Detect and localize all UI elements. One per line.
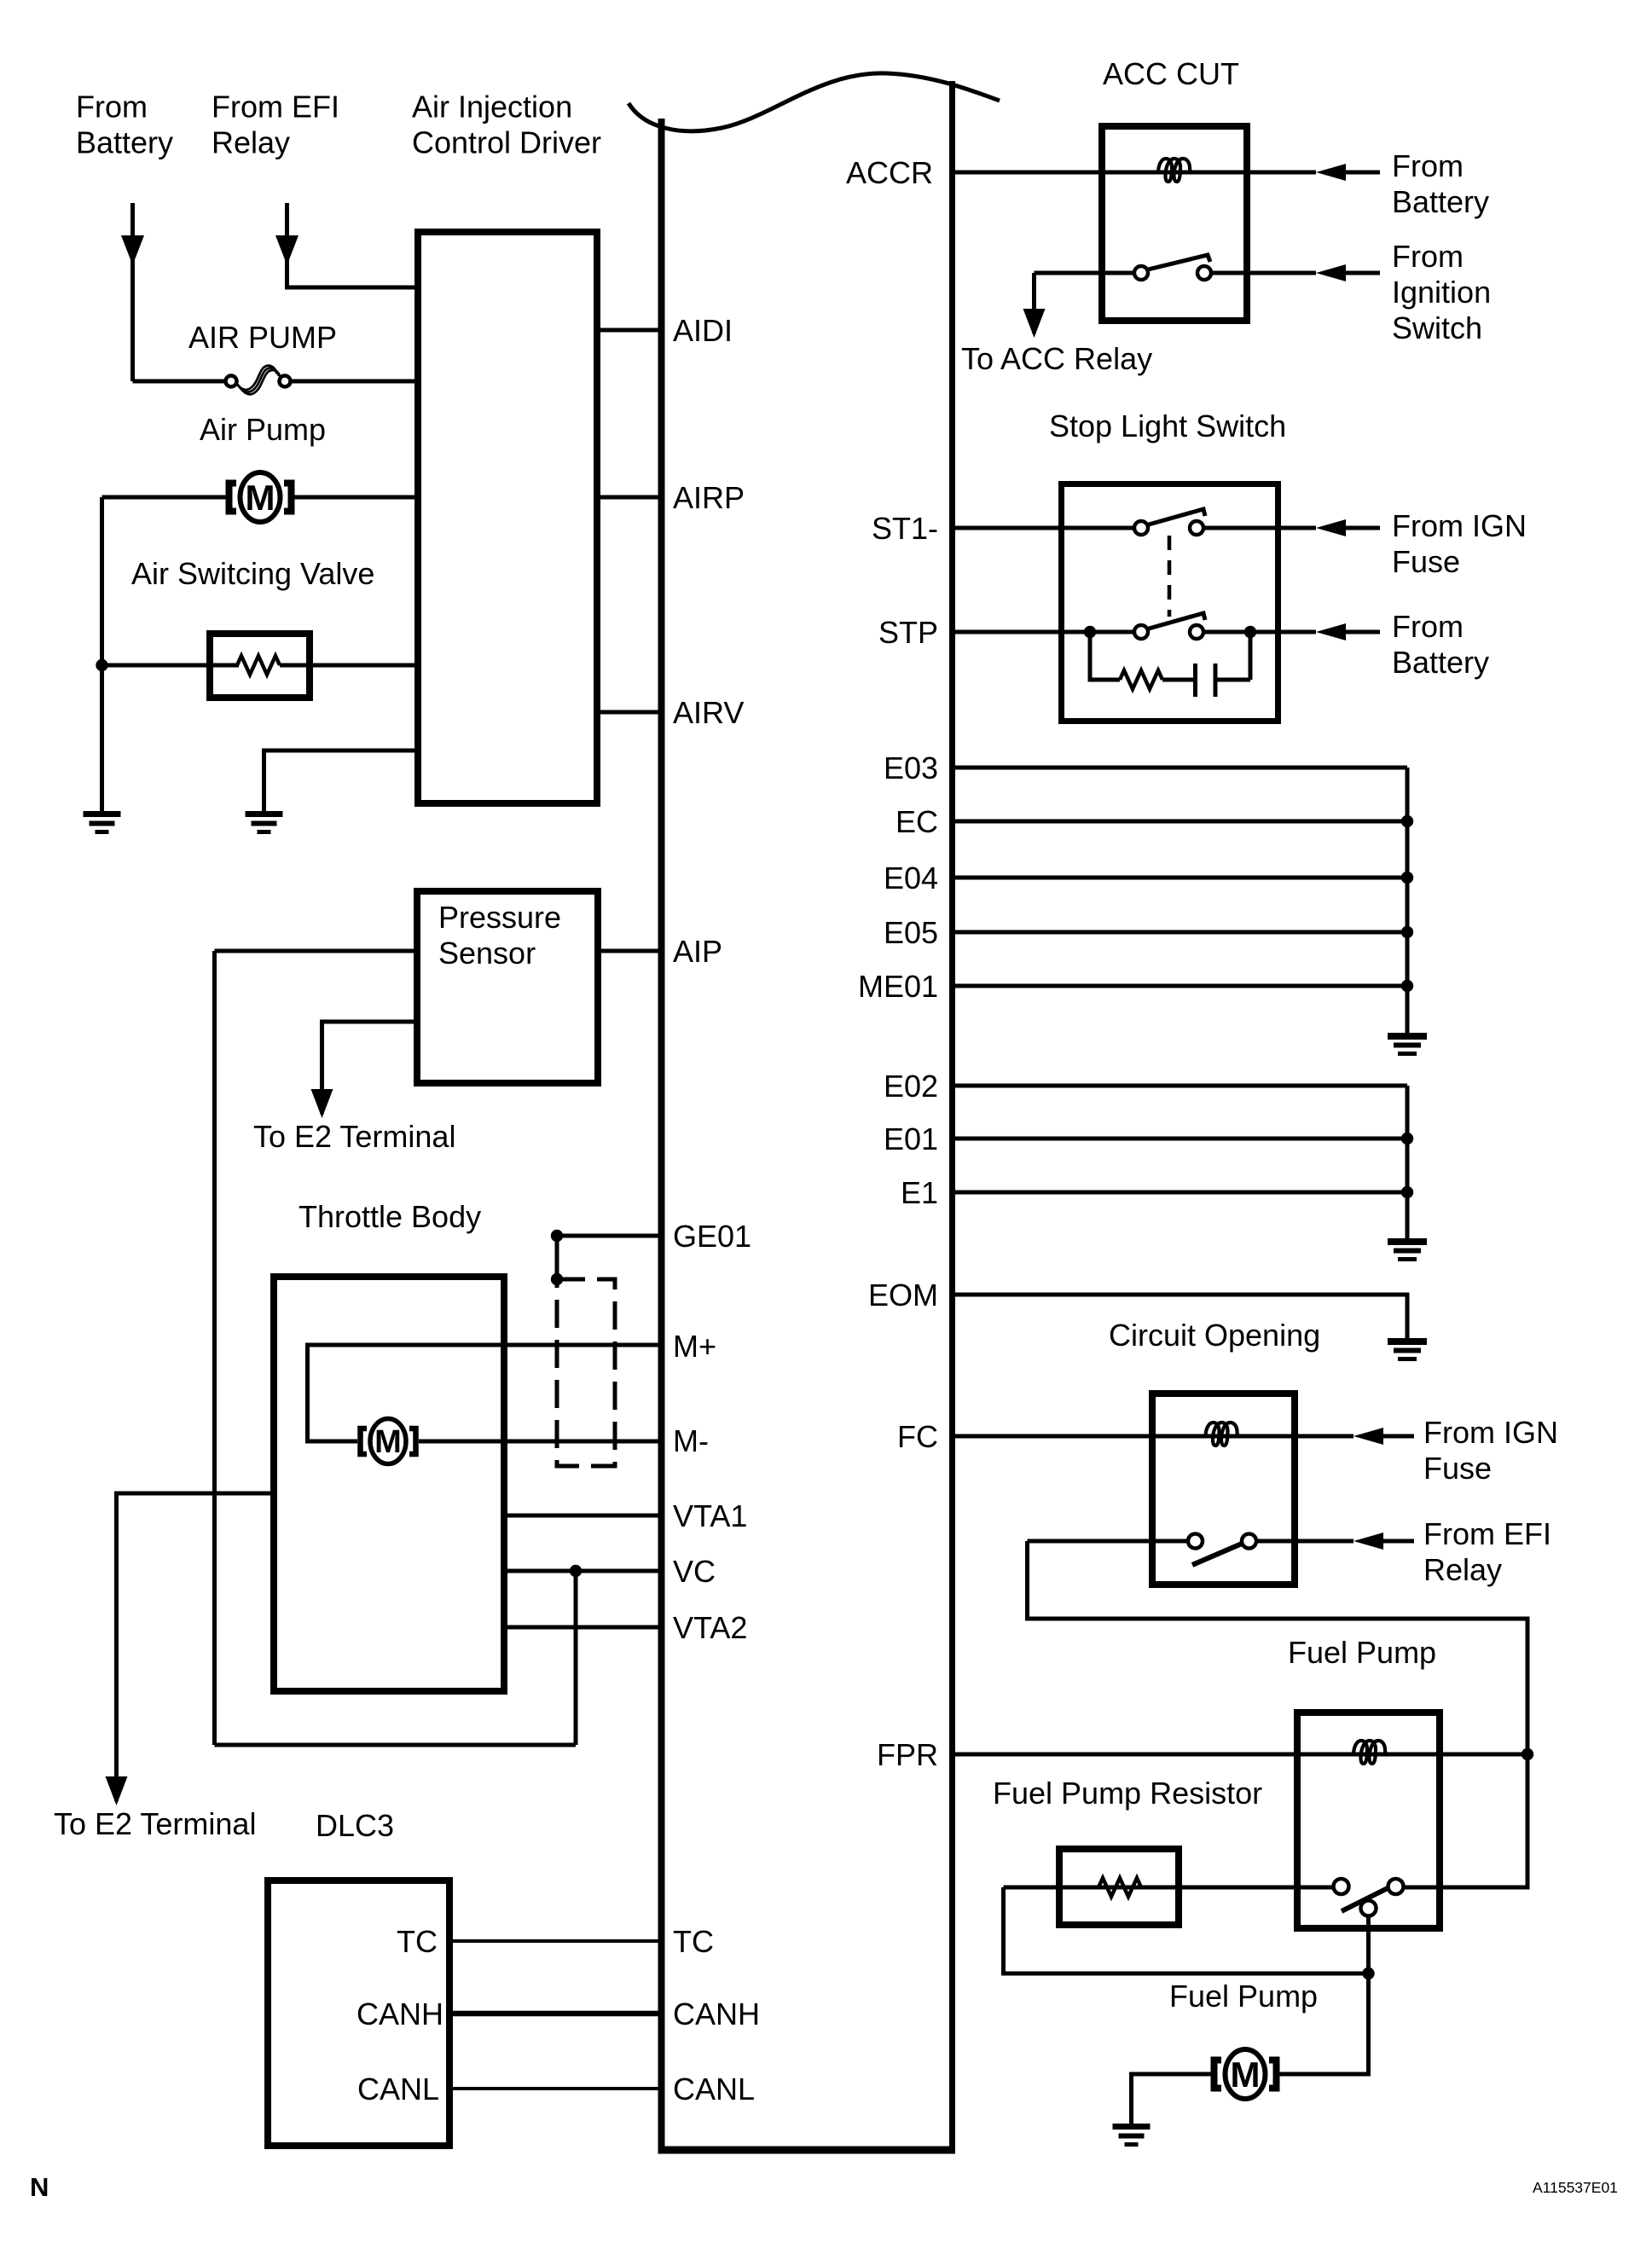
- svg-text:From: From: [76, 90, 148, 125]
- air switching valve box: [210, 634, 310, 698]
- svg-text:GE01: GE01: [673, 1219, 751, 1254]
- svg-text:To ACC Relay: To ACC Relay: [961, 341, 1152, 376]
- ground rail vertical (air system): [100, 497, 104, 811]
- svg-text:VTA1: VTA1: [673, 1498, 747, 1533]
- svg-text:Battery: Battery: [76, 125, 173, 160]
- svg-text:Fuse: Fuse: [1392, 544, 1460, 579]
- junction dot fuel pump feed: [1362, 1967, 1374, 1979]
- throttle body box: [274, 1277, 504, 1691]
- svg-text:E05: E05: [884, 915, 938, 950]
- wire circuit opening to fuel pump relay: [1028, 1541, 1528, 1754]
- wire M-: [419, 1440, 664, 1444]
- svg-text:AIRP: AIRP: [673, 480, 745, 515]
- ground symbol air system: [84, 811, 121, 834]
- svg-text:VTA2: VTA2: [673, 1610, 747, 1645]
- svg-text:AIDI: AIDI: [673, 313, 733, 348]
- svg-text:Battery: Battery: [1392, 184, 1489, 219]
- resistor bypass left leg: [1004, 1887, 1369, 1973]
- arrowhead from IGN fuse (FC): [1353, 1428, 1383, 1445]
- wire EOM: [955, 1295, 1407, 1338]
- svg-text:TC: TC: [673, 1924, 714, 1959]
- ECM left boundary line: [658, 119, 665, 2152]
- wire driver box ground: [264, 750, 415, 811]
- svg-text:EC: EC: [896, 804, 938, 839]
- air pump motor M: [229, 472, 292, 522]
- wire EFI relay feed right segment: [1257, 1539, 1353, 1544]
- svg-text:Battery: Battery: [1392, 645, 1489, 680]
- svg-text:From: From: [1392, 239, 1464, 274]
- wire ACCR to ACC CUT relay: [955, 171, 1316, 175]
- wire ignition feed right segment: [1211, 271, 1316, 275]
- SECTION-LEFT: [955, 126, 1533, 2147]
- wire STP left segment: [955, 630, 1134, 635]
- circuit opening relay coil: [1206, 1423, 1240, 1446]
- wire E04: [955, 876, 1407, 880]
- svg-text:ACC CUT: ACC CUT: [1103, 56, 1239, 91]
- svg-text:N: N: [30, 2172, 49, 2202]
- svg-text:From EFI: From EFI: [1423, 1516, 1551, 1551]
- VC loop vertical right: [574, 1571, 578, 1745]
- svg-text:E1: E1: [901, 1175, 938, 1210]
- svg-text:M: M: [246, 478, 275, 518]
- junction dot STP left: [1084, 626, 1096, 638]
- wire pressure sensor to VC loop: [215, 949, 414, 953]
- dashed link between switch blades: [1168, 536, 1172, 617]
- arrowhead to E2 terminal upper: [311, 1089, 333, 1118]
- svg-text:M: M: [374, 1424, 402, 1460]
- STP switch blade: [1149, 613, 1205, 629]
- svg-text:Relay: Relay: [1423, 1552, 1502, 1587]
- fuse AIR PUMP: [226, 366, 291, 395]
- fuel pump relay box: [1297, 1712, 1440, 1928]
- circuit opening relay box: [1152, 1394, 1295, 1585]
- svg-text:Pressure: Pressure: [438, 900, 561, 935]
- snubber resistor: [1120, 670, 1162, 689]
- ground symbol fuel pump: [1113, 2124, 1151, 2147]
- wire air pump motor left: [102, 495, 227, 500]
- wire ST1- right segment: [1203, 526, 1316, 530]
- svg-text:Air Pump: Air Pump: [200, 412, 326, 447]
- wire tail from IGN fuse: [1346, 526, 1380, 530]
- arrowhead EFI relay feed: [275, 235, 299, 265]
- ground symbol E02 group: [1388, 1238, 1427, 1261]
- svg-text:Ignition: Ignition: [1392, 275, 1491, 310]
- circuit opening contact left: [1188, 1534, 1203, 1549]
- svg-text:AIP: AIP: [673, 934, 722, 969]
- ACC CUT switch blade: [1148, 255, 1210, 269]
- svg-text:From IGN: From IGN: [1392, 508, 1527, 543]
- fuel pump resistor box: [1059, 1849, 1179, 1925]
- wire FPR: [955, 1753, 1527, 1757]
- svg-text:EOM: EOM: [868, 1278, 938, 1313]
- svg-text:E03: E03: [884, 750, 938, 785]
- wire ignition feed left segment: [1035, 271, 1135, 275]
- wire fuel pump motor to ground: [1132, 2074, 1212, 2124]
- wire air switching valve to driver box: [280, 664, 414, 668]
- arrowhead from battery (STP): [1316, 623, 1346, 640]
- svg-text:Control Driver: Control Driver: [412, 125, 601, 160]
- junction dot FPR: [1522, 1748, 1533, 1760]
- svg-text:Circuit Opening: Circuit Opening: [1109, 1318, 1320, 1353]
- arrowhead to E2 terminal lower: [106, 1776, 128, 1805]
- STP switch contact right: [1190, 625, 1203, 639]
- wire EFI relay feed left segment: [1028, 1539, 1189, 1544]
- svg-text:Switch: Switch: [1392, 310, 1482, 345]
- wire STP right segment: [1203, 630, 1316, 635]
- wire EC: [955, 820, 1407, 824]
- snubber right leg: [1249, 632, 1253, 680]
- svg-text:ME01: ME01: [858, 969, 938, 1004]
- pin stub AIRP: [600, 495, 664, 500]
- wire M+: [308, 1345, 665, 1441]
- junction dot STP right: [1244, 626, 1256, 638]
- wire relay common to fuel pump motor: [1279, 1915, 1369, 2074]
- junction dot E1: [1401, 1186, 1413, 1198]
- svg-text:DLC3: DLC3: [316, 1808, 394, 1843]
- svg-text:From IGN: From IGN: [1423, 1415, 1558, 1450]
- wire tail from IGN fuse (FC): [1383, 1434, 1414, 1439]
- fuel relay contact left: [1334, 1879, 1349, 1894]
- ACC CUT switch contact right: [1197, 266, 1211, 280]
- svg-text:FPR: FPR: [877, 1737, 938, 1772]
- svg-text:ST1-: ST1-: [872, 511, 938, 546]
- wire air pump motor to driver box: [294, 495, 414, 500]
- svg-text:To E2 Terminal: To E2 Terminal: [253, 1119, 455, 1154]
- wire E03: [955, 766, 1407, 770]
- ACC CUT relay box: [1102, 126, 1247, 321]
- svg-text:CANH: CANH: [356, 1996, 443, 2031]
- snubber capacitor: [1196, 664, 1216, 697]
- wire TC: [453, 1939, 664, 1943]
- svg-text:Fuel Pump: Fuel Pump: [1169, 1979, 1318, 2014]
- fuel pump motor M: [1214, 2049, 1277, 2099]
- wire to ACC relay: [1032, 273, 1036, 333]
- arrowhead to ACC relay: [1023, 309, 1046, 338]
- ST1- switch contact right: [1190, 521, 1203, 535]
- svg-text:ACCR: ACCR: [846, 155, 933, 190]
- wire VC: [507, 1569, 664, 1573]
- svg-text:Fuel Pump Resistor: Fuel Pump Resistor: [993, 1776, 1262, 1811]
- ST1- switch contact left: [1134, 521, 1148, 535]
- ECM right boundary line: [949, 81, 955, 2152]
- svg-text:STP: STP: [878, 615, 938, 650]
- svg-text:AIR PUMP: AIR PUMP: [188, 320, 337, 355]
- svg-text:M+: M+: [673, 1329, 716, 1364]
- resistor fuel pump: [1098, 1878, 1141, 1897]
- arrowhead from IGN fuse: [1316, 519, 1346, 536]
- wire pressure sensor to E2 arrow: [322, 1022, 414, 1114]
- junction dot E04: [1401, 872, 1413, 884]
- wire ME01: [955, 984, 1407, 988]
- arrowhead from EFI relay: [1353, 1533, 1383, 1550]
- svg-text:Sensor: Sensor: [438, 936, 536, 971]
- circuit opening switch blade: [1192, 1544, 1242, 1565]
- ground bus vertical (E02 group): [1406, 1086, 1410, 1238]
- junction dot connector top: [551, 1273, 563, 1285]
- svg-text:CANL: CANL: [357, 2072, 439, 2106]
- pressure sensor box: [417, 891, 598, 1083]
- svg-text:M-: M-: [673, 1423, 709, 1458]
- wire CANH: [453, 2011, 664, 2017]
- junction dot ME01: [1401, 980, 1413, 992]
- circuit opening contact right: [1242, 1534, 1256, 1549]
- ECM torn-edge curve: [629, 73, 1000, 131]
- wire FPR feed down to switch: [1404, 1754, 1527, 1887]
- svg-text:Fuse: Fuse: [1423, 1451, 1492, 1486]
- svg-text:E02: E02: [884, 1069, 938, 1104]
- wire CANL: [453, 2087, 664, 2090]
- svg-text:CANL: CANL: [673, 2072, 755, 2106]
- wire E02: [955, 1084, 1407, 1088]
- snubber wire resistor to capacitor: [1162, 678, 1193, 682]
- arrowhead battery feed: [121, 235, 144, 265]
- wire tail from EFI relay: [1383, 1539, 1414, 1544]
- junction dot air valve tap: [96, 659, 107, 671]
- wire E1: [955, 1191, 1407, 1195]
- ST1- switch blade: [1149, 509, 1205, 524]
- wire AIR PUMP fuse row: [133, 380, 226, 384]
- svg-text:Air Switcing Valve: Air Switcing Valve: [131, 556, 374, 591]
- wire GE01: [557, 1234, 664, 1238]
- svg-text:From EFI: From EFI: [212, 90, 339, 125]
- svg-text:CANH: CANH: [673, 1996, 760, 2031]
- wire GE01 to connector: [555, 1236, 559, 1279]
- pin stub VTA1: [507, 1514, 664, 1518]
- junction dot E01: [1401, 1133, 1413, 1144]
- svg-text:A115537E01: A115537E01: [1533, 2179, 1618, 2196]
- svg-text:From: From: [1392, 148, 1464, 183]
- ACC CUT switch contact left: [1134, 266, 1148, 280]
- wire ST1- left segment: [955, 526, 1134, 530]
- wire from EFI relay to driver box: [287, 203, 415, 287]
- snubber wire capacitor to right leg: [1218, 678, 1251, 682]
- air injection control driver box: [418, 232, 597, 803]
- wire air switching valve left: [102, 664, 240, 668]
- VC loop horizontal: [215, 1743, 577, 1747]
- ground bus vertical (E03 group): [1406, 768, 1410, 1033]
- svg-text:Stop Light Switch: Stop Light Switch: [1049, 409, 1286, 443]
- pin stub VTA2: [507, 1625, 664, 1630]
- wire from battery: [130, 203, 135, 381]
- svg-text:E01: E01: [884, 1121, 938, 1156]
- svg-text:AIRV: AIRV: [673, 695, 744, 730]
- arrowhead from battery (ACC CUT): [1316, 164, 1346, 181]
- svg-text:VC: VC: [673, 1554, 716, 1589]
- wire throttle body to E2 arrow: [117, 1493, 271, 1801]
- svg-text:Throttle Body: Throttle Body: [299, 1199, 481, 1234]
- fuel relay switch blade: [1342, 1887, 1389, 1911]
- pin stub AIP: [601, 949, 664, 953]
- ground symbol driver box: [246, 811, 283, 834]
- fuel relay contact right: [1388, 1879, 1404, 1894]
- ground symbol E03 group: [1388, 1033, 1427, 1056]
- wire tail from battery (ACC CUT): [1346, 171, 1380, 175]
- wire fuse to driver box: [291, 380, 414, 384]
- svg-text:M: M: [1231, 2054, 1261, 2095]
- pin stub AIDI: [600, 328, 664, 333]
- wire E01: [955, 1137, 1407, 1141]
- STP switch contact left: [1134, 625, 1148, 639]
- throttle motor M: [361, 1419, 416, 1464]
- svg-text:E04: E04: [884, 861, 938, 895]
- wire E05: [955, 930, 1407, 935]
- DLC3 box: [268, 1880, 449, 2146]
- junction dot VC: [570, 1565, 582, 1577]
- wire tail from ignition switch: [1346, 271, 1380, 275]
- svg-text:Fuel Pump: Fuel Pump: [1288, 1635, 1436, 1670]
- snubber left leg: [1090, 632, 1120, 680]
- wire tail from battery (STP): [1346, 630, 1380, 635]
- svg-text:Relay: Relay: [212, 125, 290, 160]
- ECM bottom edge: [658, 2147, 956, 2154]
- junction dot EC: [1401, 815, 1413, 827]
- fuel pump relay coil: [1353, 1741, 1388, 1764]
- dashed connector box: [557, 1279, 615, 1466]
- ground symbol EOM: [1388, 1338, 1427, 1361]
- junction dot E05: [1401, 926, 1413, 938]
- pin stub AIRV: [600, 710, 664, 715]
- svg-text:Air Injection: Air Injection: [412, 90, 572, 125]
- wire FC: [955, 1434, 1353, 1439]
- arrowhead from ignition switch: [1316, 264, 1346, 281]
- VC loop vertical left: [212, 951, 217, 1745]
- junction dot GE01: [551, 1230, 563, 1242]
- wire fuel relay switch left: [1004, 1886, 1334, 1890]
- svg-text:To E2 Terminal: To E2 Terminal: [54, 1806, 256, 1841]
- resistor air switching valve: [237, 656, 280, 675]
- stop light switch box: [1062, 484, 1278, 721]
- svg-text:FC: FC: [897, 1419, 938, 1454]
- ACC CUT relay coil: [1158, 159, 1192, 182]
- svg-text:From: From: [1392, 609, 1464, 644]
- fuel relay common contact: [1361, 1901, 1377, 1916]
- svg-text:TC: TC: [397, 1924, 438, 1959]
